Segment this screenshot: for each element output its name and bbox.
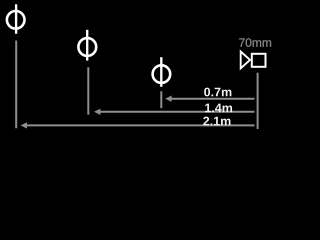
- extension line from M3: [160, 91, 162, 108]
- reference line under camera: [257, 73, 259, 129]
- subject marker S3 (circle-with-line symbol): [153, 57, 171, 87]
- subject marker S1 (circle-with-line symbol): [7, 4, 25, 34]
- label 0.7m: [204, 88, 231, 97]
- label 70mm: [239, 38, 271, 46]
- dimension line 0.7m: [165, 96, 254, 102]
- extension line from M2: [87, 67, 89, 115]
- label 1.4m: [205, 104, 232, 113]
- subject marker S2 (circle-with-line symbol): [78, 30, 96, 61]
- label 2.1m: [203, 117, 230, 126]
- camera icon: [241, 52, 266, 69]
- dimension line 2.1m: [21, 122, 255, 128]
- extension line from M1: [15, 41, 17, 129]
- dimension line 1.4m: [94, 109, 255, 115]
